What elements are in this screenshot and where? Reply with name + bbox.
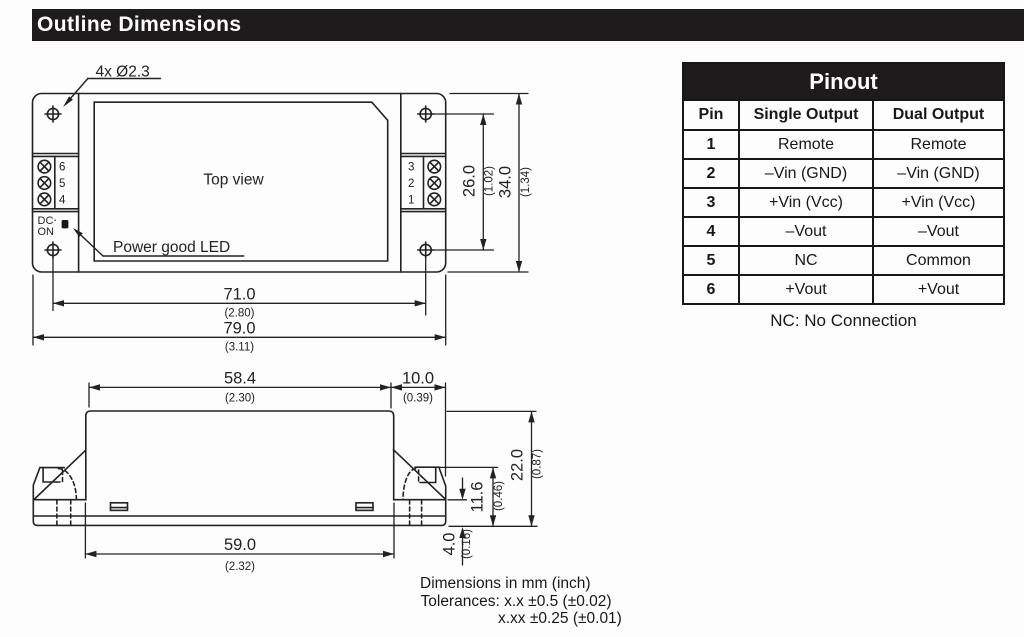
svg-text:(2.80): (2.80)	[224, 308, 254, 320]
svg-text:Top view: Top view	[203, 172, 264, 189]
dim 79.0	[33, 336, 446, 338]
svg-text:10.0: 10.0	[402, 370, 434, 388]
svg-text:4: 4	[59, 194, 66, 206]
note NC	[682, 311, 1005, 331]
dim 58.4	[89, 386, 391, 388]
svg-text:5: 5	[59, 178, 65, 190]
svg-text:(0.16): (0.16)	[461, 529, 473, 559]
screw terminal 4	[38, 193, 51, 206]
pin numbers 3 2 1	[408, 162, 414, 207]
terminal block right	[401, 154, 446, 212]
left flange diagonal	[34, 450, 86, 499]
pin numbers 6 5 4	[59, 162, 66, 207]
label DC-ON	[38, 215, 57, 238]
svg-text:(3.11): (3.11)	[225, 342, 254, 354]
svg-text:26.0: 26.0	[461, 165, 479, 197]
dim 34.0	[518, 94, 520, 273]
right hidden hole lines	[409, 500, 411, 525]
notes bottom	[420, 575, 622, 627]
right flange notch	[424, 467, 436, 482]
screw terminal 5	[38, 177, 51, 190]
section title bar	[32, 9, 1024, 41]
svg-text:11.6: 11.6	[469, 482, 487, 513]
svg-text:(0.46): (0.46)	[493, 481, 505, 511]
dim 26.0	[482, 114, 484, 250]
body outline top view	[33, 94, 446, 273]
svg-text:(2.30): (2.30)	[225, 393, 255, 405]
left flange	[33, 468, 85, 500]
svg-text:6: 6	[59, 162, 65, 174]
svg-text:34.0: 34.0	[497, 166, 515, 198]
screw terminal 3	[428, 160, 441, 173]
svg-text:(1.34): (1.34)	[520, 167, 532, 197]
power good LED square	[62, 220, 69, 228]
right flange	[394, 467, 446, 500]
extension lines below top view	[52, 258, 54, 311]
svg-text:22.0: 22.0	[509, 449, 527, 481]
right flange diagonal	[393, 450, 445, 499]
base inner line	[33, 515, 445, 517]
svg-text:(1.02): (1.02)	[484, 166, 496, 196]
svg-text:71.0: 71.0	[223, 286, 255, 304]
svg-text:59.0: 59.0	[224, 536, 256, 554]
svg-text:79.0: 79.0	[223, 320, 255, 338]
mounting hole top-left	[45, 106, 61, 122]
svg-text:Power good LED: Power good LED	[113, 239, 230, 256]
svg-text:1: 1	[408, 194, 414, 206]
side body	[86, 411, 394, 500]
slot right	[356, 503, 373, 511]
svg-text:(0.87): (0.87)	[532, 449, 544, 479]
svg-text:ON: ON	[38, 226, 55, 238]
svg-text:4.0: 4.0	[441, 533, 459, 556]
dim 59.0	[84, 503, 86, 558]
mounting hole top-right	[418, 106, 434, 122]
flange boundary right	[400, 94, 402, 273]
pinout table	[682, 62, 1005, 305]
svg-text:(0.39): (0.39)	[403, 393, 433, 405]
svg-text:58.4: 58.4	[224, 370, 256, 388]
flange boundary left	[78, 94, 80, 273]
leader Power good LED	[76, 231, 244, 257]
slot left	[111, 503, 128, 511]
mounting hole bottom-right	[418, 242, 434, 258]
screw terminal 2	[428, 177, 441, 190]
dim 11.6	[440, 466, 498, 468]
svg-text:(2.32): (2.32)	[225, 561, 255, 573]
left hidden hole lines	[56, 500, 58, 525]
left flange notch	[43, 468, 56, 482]
extensions above	[88, 383, 90, 407]
terminal block left	[33, 154, 79, 212]
svg-text:x.xx ±0.25 (±0.01): x.xx ±0.25 (±0.01)	[498, 610, 622, 627]
screw terminal 6	[38, 160, 51, 173]
svg-text:2: 2	[408, 178, 414, 190]
svg-text:Dimensions in mm (inch): Dimensions in mm (inch)	[420, 575, 591, 592]
extension lines right of top view	[434, 113, 494, 115]
dim 10.0	[391, 386, 446, 388]
dim 4.0	[448, 499, 467, 501]
svg-text:3: 3	[408, 162, 414, 174]
left hidden arc	[58, 469, 76, 500]
inner face with chamfer	[94, 102, 388, 261]
base strip	[33, 500, 445, 526]
mounting hole bottom-left	[45, 242, 61, 258]
dim 22.0	[447, 410, 536, 412]
svg-text:Tolerances: x.x ±0.5 (±0.02): Tolerances: x.x ±0.5 (±0.02)	[421, 593, 612, 610]
screw terminal 1	[428, 193, 441, 206]
right hidden arc	[403, 469, 416, 500]
dim 71.0	[53, 302, 426, 304]
